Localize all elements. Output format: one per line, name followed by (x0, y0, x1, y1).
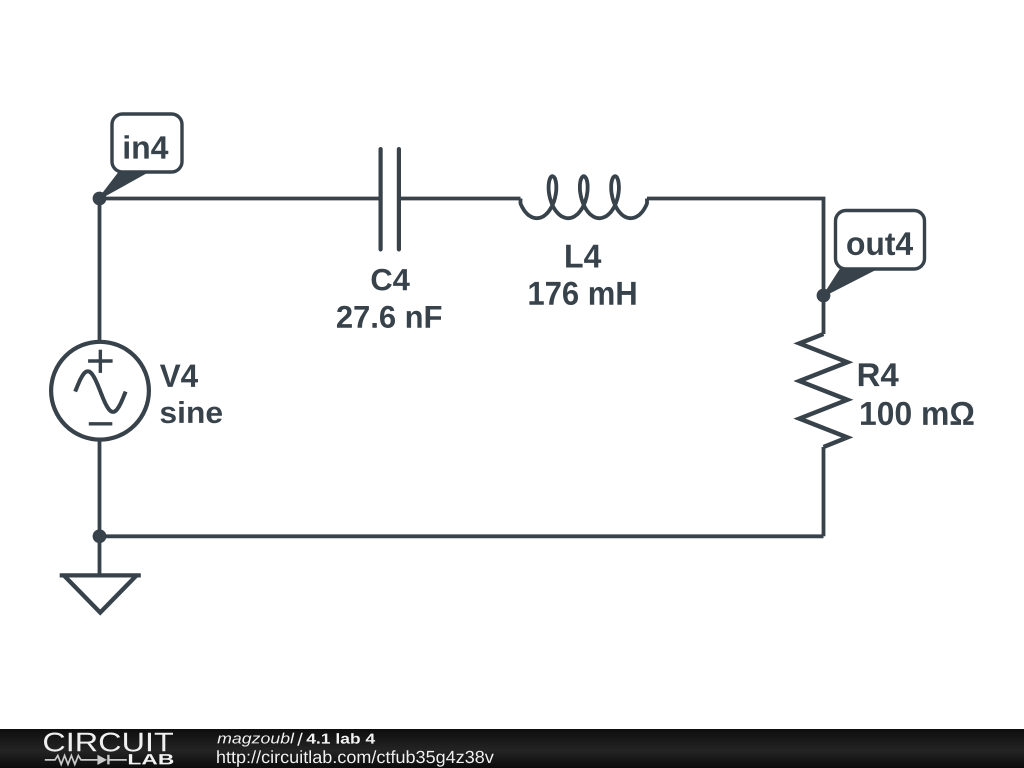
wire: inductor L4 right lead to top-right corner down to resistor R4 top (647, 199, 824, 335)
title separator slash (297, 733, 303, 746)
CircuitLab logo squiggle resistor and diode wire (45, 755, 127, 765)
inductor L4 (521, 176, 648, 218)
label C4 name (372, 269, 410, 291)
ground junction dot (93, 529, 107, 543)
label R4 name (859, 363, 899, 386)
label L4 name (566, 245, 601, 268)
footer bar background (0, 729, 1024, 768)
label V4 value (161, 401, 223, 423)
wire: resistor R4 bottom to bottom-right corner (822, 447, 826, 536)
node out4 callout box (836, 211, 925, 270)
V4 sine wave (75, 371, 125, 412)
label L4 value (529, 282, 635, 305)
label V4 name (160, 365, 198, 387)
ground symbol (60, 536, 141, 612)
node in4 callout box (112, 114, 182, 172)
wire: capacitor C4 right plate to inductor L4 left lead (399, 197, 521, 201)
node out4 callout tail (824, 269, 876, 295)
CircuitLab logo wordmark CIRCUIT (44, 733, 173, 752)
voltage source V4 circle (51, 342, 149, 440)
V4 plus sign (88, 350, 113, 373)
title name 4.1 lab 4 (307, 733, 376, 744)
node in4 label text (125, 135, 169, 158)
node out4 junction dot (817, 289, 831, 303)
url text (217, 750, 494, 766)
wire: node in4 to capacitor C4 left plate (100, 197, 381, 201)
label R4 value (861, 402, 974, 426)
CircuitLab logo LAB (129, 754, 173, 764)
CircuitLab logo diode triangle (97, 755, 107, 765)
wire: node in4 down to source V4 top terminal (98, 199, 102, 343)
capacitor C4 (381, 149, 399, 249)
label C4 value (337, 306, 441, 328)
node in4 junction dot (93, 192, 107, 206)
wire: source V4 bottom terminal to ground node (98, 440, 102, 537)
resistor R4 zigzag (799, 334, 847, 447)
wire: bottom return from corner to ground node (100, 534, 824, 538)
title author magzoubl (217, 733, 294, 747)
node out4 label text (847, 232, 913, 255)
node in4 callout tail (100, 172, 148, 199)
V4 minus sign (89, 422, 113, 425)
